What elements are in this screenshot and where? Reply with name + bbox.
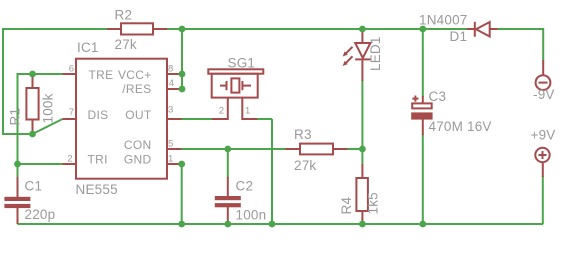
svg-text:+9V: +9V	[531, 128, 556, 143]
svg-text:TRE: TRE	[89, 68, 114, 82]
IC1 pin 7 stub	[63, 118, 77, 120]
node junction R2-right/VCC	[179, 26, 186, 33]
IC1 pin 2 stub	[63, 163, 77, 165]
svg-text:C2: C2	[236, 179, 254, 194]
node junction C3 bottom rail	[419, 221, 426, 228]
wire bottom ground rail	[18, 223, 544, 225]
svg-text:100n: 100n	[236, 208, 267, 223]
svg-text:470M 16V: 470M 16V	[429, 119, 492, 134]
wire SG1 pin1 vertical down to ground rail	[271, 119, 273, 224]
svg-text:IC1: IC1	[77, 40, 99, 55]
svg-text:27k: 27k	[294, 158, 316, 173]
node junction R3 / LED / R4	[359, 146, 366, 153]
svg-text:LED1: LED1	[368, 36, 383, 71]
svg-text:1: 1	[168, 154, 173, 165]
node junction R4 bottom rail	[359, 221, 366, 228]
svg-text:1N4007: 1N4007	[419, 13, 468, 28]
wire left vertical (x=3, top rail down to DIS row)	[2, 28, 4, 134]
node junction GND pin	[178, 161, 185, 168]
svg-text:/RES: /RES	[122, 82, 151, 96]
wire +9V down to ground rail	[542, 176, 544, 224]
node junction GND rail	[178, 221, 185, 228]
node junction SG1 pin1 rail	[269, 221, 276, 228]
svg-text:220p: 220p	[25, 207, 56, 222]
node junction LED top	[359, 26, 366, 33]
node junction TRI / C1	[14, 161, 21, 168]
svg-text:2: 2	[67, 154, 72, 165]
svg-text:TRI: TRI	[88, 153, 108, 167]
svg-text:SG1: SG1	[228, 56, 256, 71]
svg-text:1: 1	[245, 106, 250, 117]
node junction R1 top / TRE	[29, 71, 36, 78]
svg-text:C1: C1	[25, 179, 43, 194]
svg-text:5: 5	[168, 139, 173, 150]
svg-text:R4: R4	[339, 197, 354, 215]
resistor R4	[356, 164, 368, 223]
resistor R1	[26, 75, 38, 133]
svg-text:R1: R1	[8, 108, 23, 126]
wire C3 bottom to rail	[422, 134, 424, 224]
LED LED1	[343, 30, 371, 81]
IC1 pin 3 stub	[167, 118, 182, 120]
node junction pin 8	[179, 71, 186, 78]
wire C3 top from rail	[422, 29, 424, 97]
resistor R2	[107, 23, 167, 34]
node junction R1 bottom / DIS	[29, 131, 36, 138]
IC1 pin 6 stub	[63, 73, 77, 75]
wire C2 vertical from CON node	[227, 149, 229, 178]
node junction C2 bottom rail	[224, 221, 231, 228]
svg-text:VCC+: VCC+	[118, 68, 152, 82]
svg-text:3: 3	[168, 105, 173, 116]
capacitor C3 (electrolytic)	[411, 96, 432, 136]
supply +9V	[535, 148, 549, 177]
IC1 pin 8 stub	[167, 73, 182, 75]
svg-text:-9V: -9V	[533, 87, 555, 102]
node junction pin 4	[179, 86, 186, 93]
svg-text:4: 4	[169, 78, 174, 89]
svg-text:DIS: DIS	[88, 108, 109, 122]
wire top rail main segment (R2 right across LED and C3 columns to D1)	[167, 28, 468, 30]
wire R4 top from node	[361, 149, 363, 165]
buzzer SG1	[208, 69, 263, 119]
wire GND pin vertical down to rail	[181, 164, 183, 224]
svg-text:27k: 27k	[115, 37, 137, 52]
wire TRE horizontal at y=74	[18, 73, 63, 75]
wire R3 right to LED/R4 node	[348, 148, 363, 150]
svg-text:D1: D1	[450, 29, 468, 44]
supply -9V	[536, 60, 551, 90]
svg-text:GND: GND	[124, 153, 152, 167]
wire LED bottom to node	[361, 80, 363, 149]
IC1 pin 5 stub	[167, 148, 182, 150]
wire diagonal from R1 bottom node to DIS pin	[33, 119, 63, 134]
wire vertical x=17.5 (TRE node down to C1)	[17, 73, 19, 178]
wire top rail left segment (R2 left to left edge)	[3, 28, 108, 30]
capacitor C2	[215, 177, 241, 224]
wire TRI horizontal at y=164	[18, 163, 63, 165]
wire SG1 pin1 to corner	[257, 118, 272, 120]
IC1 op NE555 box	[76, 59, 167, 179]
node junction C3 top	[419, 26, 426, 33]
wire D1 to right corner and down to -9V	[497, 29, 543, 61]
svg-text:OUT: OUT	[125, 108, 152, 122]
wire DIS-net horizontal at y=134	[2, 133, 33, 135]
svg-text:C3: C3	[429, 89, 447, 104]
svg-text:R3: R3	[294, 127, 312, 142]
svg-text:R2: R2	[115, 8, 133, 23]
svg-text:100k: 100k	[41, 93, 56, 123]
wire VCC vertical from top rail to pins 8 and 4	[181, 29, 183, 89]
svg-text:2: 2	[219, 106, 224, 117]
capacitor C1	[4, 177, 30, 224]
resistor R3	[286, 144, 348, 155]
svg-text:8: 8	[168, 64, 173, 75]
svg-text:CON: CON	[124, 138, 152, 152]
svg-text:1k5: 1k5	[366, 192, 381, 214]
wire OUT to SG1 pin2	[181, 118, 212, 120]
svg-text:6: 6	[69, 64, 74, 75]
node junction CON / C2	[224, 146, 231, 153]
wire CON horizontal to R3	[181, 148, 286, 150]
IC1 pin 1 stub	[167, 163, 182, 165]
diode D1	[467, 22, 498, 37]
IC1 pin 4 stub	[167, 88, 182, 90]
svg-text:7: 7	[69, 107, 74, 118]
svg-text:NE555: NE555	[76, 182, 118, 197]
